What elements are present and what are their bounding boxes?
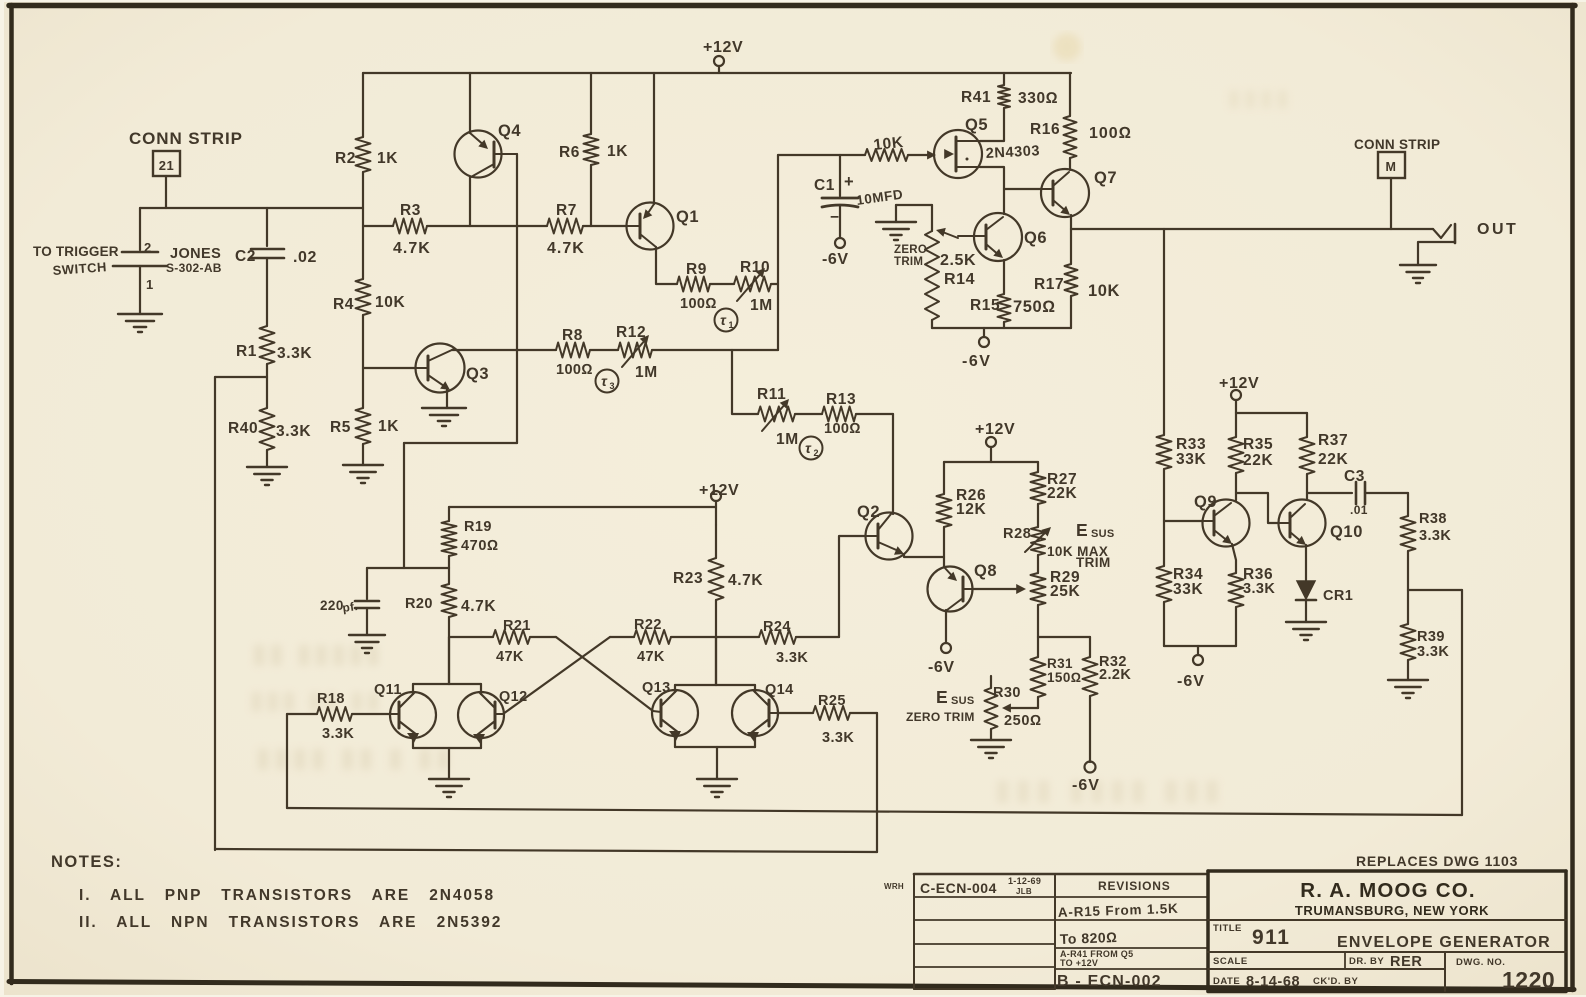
label R35	[1243, 436, 1273, 453]
wire -6V bus under Q6	[932, 327, 1071, 329]
ground under R5	[343, 465, 383, 483]
connector JONES S-302-AB pin 1	[113, 266, 167, 314]
wire Q2 collector to R13 row	[892, 414, 894, 514]
svg-text:1K: 1K	[377, 150, 398, 167]
svg-text:1M: 1M	[635, 364, 658, 381]
label +12V right	[1219, 375, 1259, 392]
resistor R40	[260, 408, 275, 450]
svg-text:-6V: -6V	[928, 659, 955, 676]
label Q5	[965, 116, 988, 134]
label Q13	[642, 680, 671, 696]
label R16	[1030, 121, 1060, 138]
svg-text:220: 220	[320, 598, 344, 613]
potentiometer R12	[618, 335, 778, 367]
label R24	[763, 619, 791, 635]
svg-text:1: 1	[146, 277, 154, 292]
label -6V under R32	[1072, 777, 1100, 794]
title block frame	[1208, 871, 1566, 992]
svg-text:R30: R30	[993, 685, 1021, 701]
wire conn strip M to OUT rail	[1390, 178, 1392, 229]
svg-text:R22: R22	[634, 617, 662, 633]
svg-text:33K: 33K	[1176, 451, 1206, 468]
wire Q4 collector to R3 row	[469, 177, 471, 226]
wire Q13 Q14 emitter bar to ground	[675, 735, 755, 779]
label R9 value 100 ohm	[680, 296, 717, 312]
wire Q11 Q12 collector bar	[413, 637, 481, 694]
svg-text:1: 1	[728, 320, 733, 330]
trimpot R30 Esus zero trim	[985, 676, 998, 740]
wire +12V rail left branch through R2 R4 R5	[362, 73, 364, 465]
svg-text:150Ω: 150Ω	[1047, 670, 1082, 685]
svg-text:▮▮▮▮: ▮▮▮▮	[1228, 85, 1292, 110]
label R. A. MOOG CO.	[1300, 879, 1476, 902]
revision entry A-R15 from 1.5K	[1058, 901, 1179, 920]
ground under R39	[1388, 680, 1428, 698]
svg-text:SCALE: SCALE	[1213, 956, 1248, 967]
resistor R34	[1157, 566, 1172, 646]
resistor R22	[610, 630, 716, 644]
potentiometer R11	[758, 399, 822, 431]
wire Q1 collector to R9 row	[656, 247, 677, 284]
svg-text:Q13: Q13	[642, 680, 671, 696]
label ZERO TRIM (R30)	[906, 710, 975, 724]
svg-text:S-302-AB: S-302-AB	[166, 261, 222, 275]
svg-text:1M: 1M	[776, 431, 799, 448]
label R36 value 3.3K	[1243, 581, 1275, 597]
wire Q11 Q12 emitter bar to ground	[413, 737, 481, 779]
label title 911	[1252, 926, 1290, 949]
transistor Q4	[455, 131, 518, 178]
resistor R3	[393, 219, 427, 234]
svg-text:R. A. MOOG CO.: R. A. MOOG CO.	[1300, 879, 1476, 902]
label R32	[1099, 654, 1127, 670]
svg-text:3.3K: 3.3K	[822, 730, 854, 746]
svg-text:DWG. NO.: DWG. NO.	[1456, 957, 1505, 968]
svg-text:.01: .01	[1350, 503, 1368, 517]
svg-text:JONES: JONES	[170, 246, 221, 262]
resistor R16	[1064, 116, 1077, 170]
resistor R39	[1401, 590, 1416, 680]
label +12V above R26	[975, 421, 1015, 438]
svg-text:C-ECN-004: C-ECN-004	[920, 880, 997, 896]
wire cross-couple R21 to Q13 base	[556, 637, 653, 711]
wire cross-couple R22 to Q12 base	[503, 637, 610, 714]
resistor R9	[677, 277, 734, 292]
resistor R24	[716, 630, 839, 644]
wire R34 R36 junction bar to -6V	[1164, 646, 1236, 665]
svg-text:+12V: +12V	[703, 39, 743, 56]
svg-text:TRUMANSBURG, NEW YORK: TRUMANSBURG, NEW YORK	[1295, 903, 1489, 918]
label C1 plus	[844, 173, 854, 191]
label R20	[405, 596, 433, 612]
label REPLACES DWG 1103	[1356, 853, 1518, 869]
label R39 value 3.3K	[1417, 644, 1449, 660]
label Q7	[1094, 169, 1117, 187]
label Q1	[676, 208, 699, 226]
svg-text:R1: R1	[236, 343, 257, 360]
svg-text:Q5: Q5	[965, 116, 988, 134]
label Esus (trim)	[1076, 520, 1115, 540]
label R8 value 100 ohm	[556, 362, 593, 378]
resistor R8	[556, 343, 618, 358]
wire Q6 emitter to R15	[1003, 260, 1005, 294]
svg-text:DR. BY: DR. BY	[1349, 956, 1384, 967]
wire R3 row	[363, 225, 627, 227]
resistor R19	[442, 521, 457, 568]
svg-text:250Ω: 250Ω	[1004, 713, 1042, 729]
svg-text:CK'D. BY: CK'D. BY	[1313, 976, 1358, 987]
svg-text:R3: R3	[400, 202, 421, 219]
capacitor 220pf	[355, 601, 379, 635]
label Q12	[499, 689, 528, 705]
label 220pf value	[320, 598, 359, 615]
label DR. BY RER	[1349, 954, 1422, 970]
resistor R23	[709, 525, 724, 685]
label R30	[993, 685, 1021, 701]
note II all NPN transistors are 2N5392	[79, 914, 502, 931]
wire R29 to R31 R32 bar	[1038, 637, 1090, 657]
label R31	[1047, 656, 1073, 671]
potentiometer R29	[1031, 573, 1046, 637]
svg-text:R16: R16	[1030, 121, 1060, 138]
svg-text:R7: R7	[556, 202, 577, 219]
svg-text:470Ω: 470Ω	[461, 538, 499, 554]
resistor 10K (Q5 gate)	[865, 149, 936, 161]
label dwg number 1220	[1502, 967, 1555, 993]
svg-text:1K: 1K	[607, 143, 628, 160]
transistor Q13	[652, 690, 698, 741]
svg-text:C1: C1	[814, 177, 835, 194]
label Q3	[466, 365, 489, 383]
svg-text:-6V: -6V	[962, 353, 991, 370]
output jack symbol	[1418, 224, 1455, 265]
label wRH initials	[884, 882, 904, 891]
ground under R30	[971, 740, 1011, 758]
label R15 value 750 ohm	[1013, 298, 1056, 316]
label R33	[1176, 436, 1206, 453]
ground under R40	[247, 467, 287, 485]
svg-text:Q10: Q10	[1330, 523, 1363, 541]
node CONN STRIP label (left)	[129, 129, 243, 148]
note I all PNP transistors are 2N4058	[79, 887, 495, 904]
wire R31 to R30 wiper	[1002, 704, 1038, 713]
svg-text:JLB: JLB	[1016, 887, 1032, 896]
label R39	[1417, 629, 1445, 645]
label R29 value 25K	[1050, 583, 1080, 600]
svg-text:R20: R20	[405, 596, 433, 612]
resistor R7	[547, 219, 583, 234]
label 10K gate resistor	[873, 134, 905, 154]
transistor Q5 (FET 2N4303)	[934, 130, 982, 178]
svg-text:.02: .02	[293, 249, 317, 266]
label R24 value 3.3K	[776, 650, 808, 666]
node CONN STRIP label (right)	[1354, 137, 1440, 152]
svg-text:Q3: Q3	[466, 365, 489, 383]
svg-text:10K: 10K	[1088, 282, 1120, 300]
svg-text:R25: R25	[818, 693, 846, 709]
label SCALE	[1213, 956, 1248, 967]
label Q14	[765, 682, 794, 698]
ground under Q11 Q12	[429, 779, 469, 797]
wire +12V rail to Q4 emitter	[469, 73, 471, 133]
wire Q9 emitter to R36	[1232, 544, 1236, 573]
wire OUT rail	[1071, 228, 1433, 230]
svg-text:2.2K: 2.2K	[1099, 667, 1131, 683]
svg-text:3.3K: 3.3K	[776, 650, 808, 666]
svg-text:4.7K: 4.7K	[393, 240, 431, 257]
wire conn strip 21 to trigger bus	[140, 176, 363, 208]
svg-text:REPLACES DWG 1103: REPLACES DWG 1103	[1356, 853, 1518, 869]
svg-text:-6V: -6V	[822, 251, 849, 268]
svg-text:Q4: Q4	[498, 122, 521, 140]
transistor Q1	[627, 203, 674, 250]
label R26 value 12K	[956, 501, 986, 518]
svg-text:R19: R19	[464, 519, 492, 535]
label R10 value 1M	[750, 297, 773, 314]
label R6 value 1K	[607, 143, 628, 160]
label REVISIONS	[1098, 879, 1171, 893]
svg-text:CR1: CR1	[1323, 588, 1353, 604]
label C3	[1344, 468, 1365, 485]
wire Q13 Q14 collector bar	[675, 637, 755, 692]
label R32 value 2.2K	[1099, 667, 1131, 683]
label Q2	[857, 503, 880, 521]
label +12V top	[703, 39, 743, 56]
svg-text:R21: R21	[503, 618, 531, 634]
svg-text:8-14-68: 8-14-68	[1246, 974, 1300, 990]
label R18 value 3.3K	[322, 726, 354, 742]
resistor R6	[584, 134, 599, 165]
label TO TRIGGER SWITCH	[33, 244, 119, 278]
svg-text:C3: C3	[1344, 468, 1365, 485]
svg-text:2N4303: 2N4303	[985, 143, 1040, 162]
label R3 value 4.7K	[393, 240, 431, 257]
transistor Q10	[1279, 500, 1326, 547]
label OUT	[1477, 221, 1518, 238]
svg-text:47K: 47K	[496, 649, 524, 665]
svg-text:R5: R5	[330, 419, 351, 436]
resistor R31	[1031, 657, 1046, 708]
label R7 value 4.7K	[547, 240, 585, 257]
svg-text:-6V: -6V	[1177, 673, 1205, 690]
label Q5 type 2N4303	[985, 143, 1040, 162]
node tau3 circle	[596, 370, 619, 393]
label Q8	[974, 562, 997, 580]
connector terminal 21 (conn strip)	[153, 151, 180, 176]
label R23	[673, 570, 703, 587]
label -6V mid	[962, 353, 991, 370]
wire R10 to vertical bus x778	[777, 155, 779, 350]
revision entry To 820 ohm	[1060, 929, 1118, 947]
label R2	[335, 150, 356, 167]
wire R21 row	[449, 636, 556, 638]
svg-text:10K: 10K	[375, 294, 405, 311]
svg-text:Q1: Q1	[676, 208, 699, 226]
wire timing bus to gate resistor	[778, 154, 865, 156]
wire Q4 base down to timing node	[404, 154, 517, 568]
svg-text:▮▮▮▮ ▮▮ ▮ ▮▮: ▮▮▮▮ ▮▮ ▮ ▮▮	[256, 742, 454, 772]
label R13	[826, 391, 856, 408]
label C1	[814, 177, 835, 194]
svg-text:Q9: Q9	[1194, 493, 1217, 511]
resistor R21	[493, 630, 530, 644]
notes heading	[51, 853, 122, 871]
svg-text:RER: RER	[1390, 954, 1422, 970]
ground at R14 top	[876, 205, 932, 240]
svg-text:100Ω: 100Ω	[1089, 125, 1132, 142]
label C2 value .02	[293, 249, 317, 266]
svg-text:E: E	[1076, 520, 1088, 540]
svg-text:4.7K: 4.7K	[728, 572, 763, 589]
svg-text:1-12-69: 1-12-69	[1008, 876, 1041, 886]
wire Q3 base	[363, 367, 416, 369]
svg-text:II. ALL NPN TRANSISTORS AR: II. ALL NPN TRANSISTORS ARE 2N5392	[79, 914, 502, 931]
wire +12V bar over R35 R37	[1236, 413, 1307, 437]
capacitor C3	[1307, 482, 1408, 504]
transistor Q11	[390, 692, 436, 743]
svg-text:22K: 22K	[1318, 451, 1348, 468]
resistor R17	[1065, 264, 1078, 328]
label R21 value 47K	[496, 649, 524, 665]
resistor R25	[777, 706, 877, 720]
label -6V under C1	[822, 251, 849, 268]
wire OUT rail down to R33	[1163, 229, 1165, 435]
label R5 value 1K	[378, 418, 399, 435]
transistor Q7	[1041, 169, 1089, 217]
svg-text:911: 911	[1252, 926, 1290, 949]
svg-text:1K: 1K	[378, 418, 399, 435]
svg-text:R6: R6	[559, 144, 580, 161]
label R41	[961, 89, 991, 106]
svg-text:25K: 25K	[1050, 583, 1080, 600]
potentiometer R10	[734, 268, 778, 301]
wire Q5 source to Q6 collector	[980, 167, 1004, 214]
svg-text:R24: R24	[763, 619, 791, 635]
wire +12V rail to R16	[1069, 73, 1071, 116]
svg-text:750Ω: 750Ω	[1013, 298, 1056, 316]
label R15	[970, 297, 1000, 314]
wire 220pf bar	[367, 568, 449, 599]
label TITLE	[1213, 923, 1242, 934]
transistor Q3	[416, 344, 465, 393]
svg-text:Q14: Q14	[765, 682, 794, 698]
svg-text:3: 3	[609, 381, 614, 391]
terminal +12V flip-flop	[711, 491, 721, 525]
label Esus (zero)	[936, 687, 975, 707]
revision entry A-R41 from Q5	[1060, 949, 1133, 959]
svg-text:Q8: Q8	[974, 562, 997, 580]
label R20 value 4.7K	[461, 598, 496, 615]
svg-text:+: +	[844, 173, 854, 191]
svg-text:R41: R41	[961, 89, 991, 106]
label R25	[818, 693, 846, 709]
svg-text:33K: 33K	[1173, 581, 1203, 598]
label R10	[740, 259, 770, 276]
svg-text:2: 2	[144, 240, 152, 255]
svg-text:TO +12V: TO +12V	[1060, 958, 1098, 968]
ground under 220pf	[349, 635, 385, 653]
terminal +12V top	[714, 56, 724, 73]
svg-text:B - ECN-002: B - ECN-002	[1057, 973, 1162, 990]
label R23 value 4.7K	[728, 572, 763, 589]
svg-text:R4: R4	[333, 296, 354, 313]
revision entry B-ECN-002	[1057, 973, 1162, 990]
resistor R2	[356, 137, 371, 172]
svg-text:Q12: Q12	[499, 689, 528, 705]
svg-text:C2: C2	[235, 248, 256, 265]
svg-text:330Ω: 330Ω	[1018, 90, 1058, 107]
svg-text:R37: R37	[1318, 432, 1348, 449]
label R21	[503, 618, 531, 634]
svg-text:−: −	[830, 209, 840, 226]
wire +12V rail to Q1 emitter	[653, 73, 655, 204]
resistor R20	[442, 568, 457, 684]
label C2	[235, 248, 256, 265]
wire C2 to R1	[266, 258, 268, 326]
label R37 value 22K	[1318, 451, 1348, 468]
svg-text:TO TRIGGER: TO TRIGGER	[33, 244, 119, 259]
wire R1 to R40 junction	[266, 364, 268, 408]
label R22	[634, 617, 662, 633]
label -6V under Q8	[928, 659, 955, 676]
label R26	[956, 487, 986, 504]
svg-text:TRIM: TRIM	[1076, 555, 1111, 570]
wire Q9 base	[1164, 520, 1203, 522]
svg-text:Q2: Q2	[857, 503, 880, 521]
label R22 value 47K	[637, 649, 665, 665]
label R36	[1243, 566, 1273, 583]
terminal +12V right	[1231, 390, 1241, 413]
wire Q7 emitter to OUT rail and R17	[1070, 215, 1072, 264]
svg-text:22K: 22K	[1047, 485, 1077, 502]
svg-text:3.3K: 3.3K	[1243, 581, 1275, 597]
label R11	[757, 386, 786, 403]
label R25 value 3.3K	[822, 730, 854, 746]
terminal +12V above R26	[986, 437, 996, 462]
label JONES S-302-AB	[166, 246, 222, 275]
label R35 value 22K	[1243, 452, 1273, 469]
wire Q3 emitter to ground	[446, 390, 448, 408]
svg-text:3.3K: 3.3K	[276, 423, 311, 440]
svg-text:2.5K: 2.5K	[940, 252, 976, 269]
wire Q2 emitter to R26 junction	[904, 554, 944, 557]
ground under Q13 Q14	[697, 779, 737, 797]
svg-text:Q7: Q7	[1094, 169, 1117, 187]
svg-text:100Ω: 100Ω	[680, 296, 717, 312]
label R1	[236, 343, 257, 360]
label TRUMANSBURG NEW YORK	[1295, 903, 1489, 918]
svg-text:R28: R28	[1003, 526, 1031, 542]
resistor R36	[1229, 573, 1244, 646]
svg-text:R15: R15	[970, 297, 1000, 314]
label Q6	[1024, 229, 1047, 247]
label R4	[333, 296, 354, 313]
svg-text:22K: 22K	[1243, 452, 1273, 469]
wire Q10 emitter to CR1	[1305, 545, 1307, 580]
wire trigger junction to flip-flop bus (left long wire)	[215, 377, 877, 852]
svg-text:2: 2	[813, 448, 818, 458]
label R5	[330, 419, 351, 436]
label ENVELOPE GENERATOR	[1337, 934, 1551, 951]
connector terminal M (conn strip)	[1378, 152, 1405, 178]
resistor R33	[1157, 435, 1172, 566]
terminal -6V mid	[979, 328, 989, 347]
trimpot R28 Esus max trim	[1025, 527, 1051, 573]
resistor R5	[356, 408, 371, 444]
label R37	[1318, 432, 1348, 449]
label R17	[1034, 276, 1064, 293]
svg-text:3.3K: 3.3K	[1417, 644, 1449, 660]
